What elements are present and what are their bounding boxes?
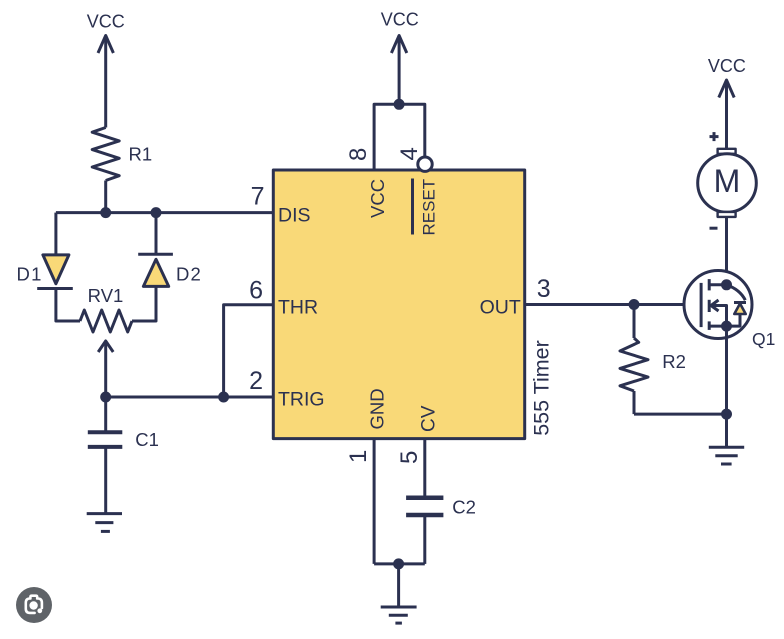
svg-text:R1: R1 [129, 143, 153, 164]
transistor Q1 (N-channel MOSFET) [684, 271, 752, 339]
resistor R2 [620, 305, 648, 415]
svg-text:6: 6 [249, 276, 263, 304]
diode D2 [138, 254, 173, 286]
wire: TRIG net horizontal [106, 396, 274, 399]
svg-text:7: 7 [251, 183, 265, 211]
junction: source/ground node [723, 410, 731, 418]
svg-text:C2: C2 [452, 496, 476, 517]
junction: ground net [395, 560, 403, 568]
ground (C1) [87, 514, 122, 532]
power VCC symbol (right) [708, 56, 746, 149]
svg-text:D2: D2 [176, 264, 202, 285]
svg-text:RESET: RESET [419, 179, 438, 236]
svg-text:DIS: DIS [278, 204, 311, 226]
wire: C2 to ground net [423, 515, 426, 564]
wire: R1 to DIS node [104, 181, 107, 213]
wire: R2 to source node [634, 413, 727, 416]
Google Lens button [16, 587, 52, 623]
svg-text:OUT: OUT [480, 296, 521, 318]
capacitor C2 [406, 498, 443, 515]
svg-text:TRIG: TRIG [278, 389, 325, 411]
svg-text:Q1: Q1 [752, 329, 775, 349]
resistor R1 [92, 128, 119, 181]
svg-text:C1: C1 [135, 429, 159, 450]
svg-text:VCC: VCC [367, 179, 388, 218]
wire: ground net horizontal [374, 562, 425, 565]
power VCC symbol (top) [381, 9, 419, 104]
power VCC symbol (left) [87, 12, 125, 128]
svg-text:VCC: VCC [708, 56, 746, 76]
wire: pin8/pin4 top link [374, 104, 425, 170]
svg-text:VCC: VCC [87, 12, 125, 32]
svg-text:555 Timer: 555 Timer [529, 340, 553, 436]
wire: D2 cathode drop [155, 213, 158, 254]
svg-text:M: M [714, 163, 741, 199]
ground (C2/GND) [381, 607, 417, 623]
capacitor C1 [88, 432, 123, 447]
ground (Q1 source) [709, 414, 744, 464]
svg-text:R2: R2 [662, 351, 686, 372]
potentiometer RV1 [80, 310, 132, 397]
pin 4 bubble [418, 157, 432, 171]
wire: D1 cathode to RV1 [56, 289, 80, 322]
wire: C1 top lead [104, 397, 107, 432]
wire: D1 anode drop [54, 213, 57, 255]
IC U1 555 timer body [273, 170, 524, 439]
junction: DIS net at D2 [152, 209, 160, 217]
wire: Q1 source to ground node [725, 326, 728, 414]
junction: TRIG/THR tie [220, 393, 228, 401]
junction: VCC top [395, 100, 403, 108]
svg-text:CV: CV [419, 405, 440, 432]
wire: motor to Q1 drain [725, 217, 728, 285]
svg-text:1: 1 [345, 450, 372, 463]
diode D1 [37, 255, 73, 289]
wire: C1 to ground [104, 447, 107, 514]
svg-text:RV1: RV1 [88, 285, 124, 306]
wire: THR link [224, 305, 274, 397]
svg-text:VCC: VCC [381, 9, 419, 29]
svg-text:8: 8 [345, 148, 372, 161]
svg-text:5: 5 [396, 451, 423, 464]
pin 4 RESET overbar [411, 179, 414, 235]
motor M1 [698, 132, 757, 228]
junction: DIS net at R1 [102, 209, 110, 217]
svg-text:GND: GND [367, 388, 388, 429]
wire: GND pin 1 [373, 439, 376, 564]
svg-text:THR: THR [278, 296, 318, 318]
wire: DIS net horizontal [56, 211, 273, 214]
svg-text:3: 3 [537, 275, 551, 303]
junction: TRIG net at C1 [102, 393, 110, 401]
wire: D2 anode to RV1 [132, 286, 156, 321]
wire: ground stem [397, 564, 400, 607]
svg-text:2: 2 [249, 367, 263, 395]
wire: CV pin 5 to C2 [423, 439, 426, 496]
svg-text:D1: D1 [17, 264, 43, 285]
junction: OUT at R2 [630, 301, 638, 309]
wire: OUT net [525, 303, 699, 306]
